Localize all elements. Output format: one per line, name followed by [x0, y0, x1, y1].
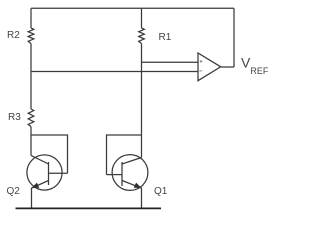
svg-text:Q2: Q2: [7, 186, 21, 197]
transistor Q2: [27, 155, 68, 190]
svg-text:R2: R2: [7, 30, 20, 41]
resistor R2: [28, 28, 34, 44]
wire lower op-amp input from node A: [31, 71, 198, 73]
resistor R3: [28, 109, 34, 127]
wire Q1 emitter to ground: [141, 188, 143, 209]
wire Q2 collector-base loop: [31, 135, 68, 173]
wire feedback vertical to top rail: [233, 8, 235, 67]
transistor Q1: [107, 155, 148, 191]
svg-text:R1: R1: [159, 32, 172, 43]
wire left vertical below R3 to Q2 collector: [30, 127, 32, 156]
wire Q1 collector-base loop: [107, 135, 142, 175]
wire left vertical between R2 and R3: [30, 44, 32, 110]
wire left vertical above R2: [30, 8, 32, 28]
wire Q2 emitter to ground: [31, 188, 33, 209]
op-amp minus input mark: [199, 70, 202, 72]
wire right vertical above R1: [141, 8, 143, 28]
svg-text:R3: R3: [8, 112, 21, 123]
wire upper op-amp input from node B: [142, 61, 199, 63]
wire right vertical below R1 to Q1 collector: [141, 44, 143, 158]
svg-text:VREF: VREF: [241, 55, 269, 77]
wire top rail: [31, 7, 234, 9]
resistor R1: [139, 28, 145, 44]
ground: [16, 207, 162, 209]
op-amp plus input mark: [200, 60, 203, 63]
wire op-amp output: [221, 66, 234, 68]
op-amp U1: [198, 53, 221, 81]
svg-text:Q1: Q1: [154, 186, 168, 197]
